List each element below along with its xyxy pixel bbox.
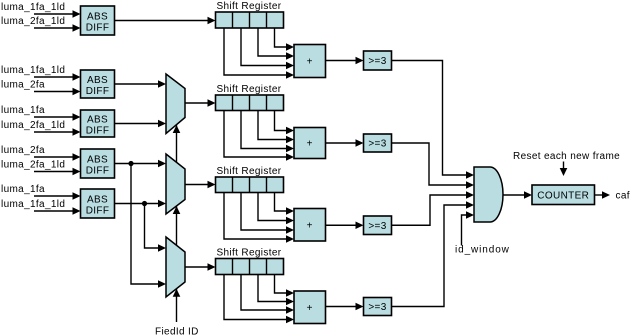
wire SR3 tap2 to adder A3 in3 (241, 193, 294, 234)
shift register SR4 (216, 259, 284, 275)
wire mux M3 to SR4 (185, 263, 216, 271)
wire U2 output to mux M1 in1 (115, 80, 167, 88)
node label luma_2fa_1ld (input row 2) (1, 16, 65, 27)
svg-text:luma_1fa: luma_1fa (1, 184, 45, 195)
node label luma_1fa_1ld (input row 10) (1, 199, 65, 210)
wire C4 to gate G1 in4 (392, 201, 475, 306)
svg-text:luma_2fa_1ld: luma_2fa_1ld (1, 160, 65, 171)
node label luma_1fa (input row 5) (1, 105, 45, 116)
node label luma_2fa (input row 7) (1, 145, 45, 156)
svg-text:luma_1fa_1ld: luma_1fa_1ld (1, 199, 65, 210)
wire U1 output to SR1 input (115, 17, 216, 25)
node label luma_2fa_1ld (input row 8) (1, 160, 65, 171)
wire C1 to gate G1 in1 (392, 61, 475, 179)
select arrow into mux M2 (173, 206, 181, 214)
wire input row 6 to ABS DIFF (34, 128, 81, 136)
wire SR4 tap4 to adder A4 in1 (275, 275, 295, 297)
wire SR2 tap1 to adder A2 in4 (224, 111, 294, 161)
shift register SR1 (216, 12, 284, 28)
svg-text:luma_2fa: luma_2fa (1, 145, 45, 156)
wire input row 8 to ABS DIFF (34, 168, 81, 176)
wire SR1 tap3 to adder A1 in2 (258, 28, 294, 60)
wire adder A1 to comparator C1 (326, 57, 364, 65)
abs-diff block U5 (81, 189, 115, 218)
wire input row 3 to ABS DIFF (34, 73, 81, 81)
wire input row 5 to ABS DIFF (34, 113, 81, 121)
svg-text:>=3: >=3 (368, 56, 386, 67)
wire SR2 tap4 to adder A2 in1 (275, 111, 295, 135)
svg-text:>=3: >=3 (368, 221, 386, 232)
wire counter U6 to output caf (595, 191, 611, 199)
wire adder A2 to comparator C2 (326, 139, 364, 147)
wire input row 9 to ABS DIFF (34, 192, 81, 200)
svg-text:luma_1fa: luma_1fa (1, 105, 45, 116)
node label FiedId ID (select net) (155, 327, 199, 336)
wire C2 to gate G1 in2 (392, 143, 475, 189)
svg-text:DIFF: DIFF (86, 86, 110, 97)
svg-text:DIFF: DIFF (86, 166, 110, 177)
comparator C1 (&gt;=3) (364, 51, 392, 70)
wire SR4 tap2 to adder A4 in3 (241, 275, 294, 314)
wire gate G1 to counter U6 (503, 191, 532, 199)
counter block U6 (532, 185, 595, 205)
svg-text:ABS: ABS (87, 12, 108, 23)
node label luma_1fa_1ld (input row 1) (1, 2, 65, 13)
select arrow into mux M3 (173, 289, 181, 297)
net FieldId select vertical wire (176, 125, 178, 322)
wire SR1 tap2 to adder A1 in3 (241, 28, 294, 69)
label Shift Register (SR4) (217, 248, 282, 259)
svg-text:luma_2fa_1ld: luma_2fa_1ld (1, 120, 65, 131)
wire id_window to gate G1 in5 (462, 211, 475, 245)
comparator C3 (&gt;=3) (364, 216, 392, 235)
comparator C4 (&gt;=3) (364, 298, 392, 316)
svg-text:Shift Register: Shift Register (217, 248, 282, 259)
wire U5 output to mux M2 in2 (115, 200, 167, 208)
label Shift Register (SR2) (217, 84, 282, 95)
svg-text:id_window: id_window (455, 245, 510, 256)
wire SR4 tap3 to adder A4 in2 (258, 275, 294, 306)
wire SR2 tap2 to adder A2 in3 (241, 111, 294, 153)
reset wire into counter U6 (560, 162, 568, 177)
shift register SR3 (216, 177, 284, 193)
svg-text:+: + (307, 220, 313, 231)
svg-text:ABS: ABS (87, 75, 108, 86)
wire SR4 tap1 to adder A4 in4 (224, 275, 294, 324)
wire mux M1 to SR2 (185, 99, 216, 107)
label Shift Register (SR3) (217, 166, 282, 177)
node label luma_2fa (input row 4) (1, 80, 45, 91)
abs-diff block U3 (81, 110, 115, 137)
wire SR1 tap1 to adder A1 in4 (224, 28, 294, 79)
svg-text:FiedId ID: FiedId ID (155, 327, 199, 336)
wire input row 4 to ABS DIFF (34, 88, 81, 96)
node label luma_2fa_1ld (input row 6) (1, 120, 65, 131)
svg-text:luma_1fa_1ld: luma_1fa_1ld (1, 65, 65, 76)
wire C3 to gate G1 in3 (392, 191, 475, 225)
junction dot on U5 output net (142, 201, 147, 206)
wire input row 2 to ABS DIFF (34, 24, 81, 32)
wire SR3 tap4 to adder A3 in1 (275, 193, 295, 215)
svg-text:caf: caf (616, 191, 630, 202)
svg-text:COUNTER: COUNTER (537, 190, 589, 201)
wire adder A3 to comparator C3 (326, 221, 364, 229)
svg-text:>=3: >=3 (368, 139, 386, 150)
svg-text:ABS: ABS (87, 195, 108, 206)
svg-text:luma_1fa_1ld: luma_1fa_1ld (1, 2, 65, 13)
label Reset each new frame (513, 151, 620, 162)
abs-diff block U2 (81, 70, 115, 98)
wire U3 output to mux M1 in2 (115, 120, 167, 128)
svg-text:>=3: >=3 (368, 302, 386, 313)
wire U4 output to mux M2 in1 (115, 160, 167, 168)
node label caf (output) (616, 191, 630, 202)
wire mux M2 to SR3 (185, 181, 216, 189)
svg-text:ABS: ABS (87, 115, 108, 126)
wire adder A4 to comparator C4 (326, 303, 364, 311)
abs-diff block U1 (81, 6, 115, 35)
svg-text:+: + (307, 139, 313, 150)
svg-text:DIFF: DIFF (86, 126, 110, 137)
mux M3 (166, 237, 185, 297)
wire SR3 tap3 to adder A3 in2 (258, 193, 294, 225)
adder A3 (294, 209, 326, 242)
wire SR3 tap1 to adder A3 in4 (224, 193, 294, 243)
svg-text:+: + (307, 57, 313, 68)
svg-text:Reset each new frame: Reset each new frame (513, 151, 620, 162)
node label luma_1fa (input row 9) (1, 184, 45, 195)
wire U5 branch to mux M3 in1 (145, 204, 167, 252)
svg-text:DIFF: DIFF (86, 206, 110, 217)
label Shift Register (SR1) (217, 1, 282, 12)
svg-text:luma_2fa_1ld: luma_2fa_1ld (1, 16, 65, 27)
adder A4 (294, 291, 326, 324)
comparator C2 (&gt;=3) (364, 134, 392, 152)
node label id_window (455, 245, 510, 256)
svg-text:Shift Register: Shift Register (217, 84, 282, 95)
wire SR2 tap3 to adder A2 in2 (258, 111, 294, 144)
junction dot on U4 output net (128, 161, 133, 166)
svg-text:DIFF: DIFF (86, 23, 110, 34)
abs-diff block U4 (81, 149, 115, 178)
svg-text:ABS: ABS (87, 155, 108, 166)
wire SR1 tap4 to adder A1 in1 (275, 28, 295, 51)
svg-text:+: + (307, 303, 313, 314)
wire input row 1 to ABS DIFF (34, 10, 81, 18)
wire U4 branch to mux M3 in2 (131, 164, 166, 288)
select arrow into mux M1 (173, 125, 181, 133)
wire input row 7 to ABS DIFF (34, 153, 81, 161)
svg-text:Shift Register: Shift Register (217, 1, 282, 12)
and-gate G1 (window combine) (474, 167, 503, 222)
svg-text:Shift Register: Shift Register (217, 166, 282, 177)
node label luma_1fa_1ld (input row 3) (1, 65, 65, 76)
shift register SR2 (216, 95, 284, 111)
svg-text:luma_2fa: luma_2fa (1, 80, 45, 91)
adder A1 (294, 45, 326, 78)
mux M1 (166, 74, 185, 134)
mux M2 (166, 154, 185, 214)
adder A2 (294, 128, 326, 159)
wire input row 10 to ABS DIFF (34, 207, 81, 215)
